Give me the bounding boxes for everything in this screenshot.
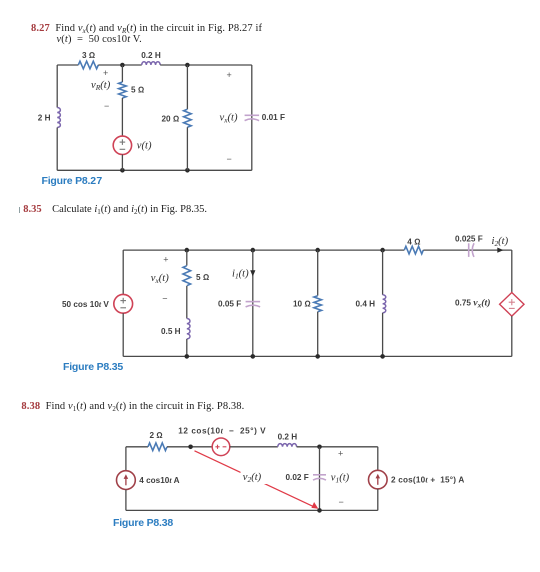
wire: circuit3 top after source (230, 446, 278, 448)
wire: mid branch above 5ohm (121, 65, 123, 82)
wire: circuit2 right edge upper (511, 250, 513, 292)
wire: circuit1 top between 3ohm and node (98, 64, 141, 66)
wire: cap branch upper (319, 447, 321, 511)
svg-text:0.2 H: 0.2 H (141, 51, 161, 60)
wire: mid branch below 5ohm (121, 98, 123, 136)
svg-text:10 Ω: 10 Ω (293, 300, 311, 309)
wire: circuit1 top-left segment (57, 64, 78, 66)
inductor 0.2 H c3 (278, 444, 297, 447)
resistor 4 ohm (404, 246, 423, 254)
svg-text:2 Ω: 2 Ω (149, 431, 162, 440)
node dot top cap branch (317, 445, 322, 450)
node dot bottom branch i1 (251, 354, 256, 359)
wire: circuit3 bottom edge (126, 509, 378, 511)
wire: circuit3 right edge lower (377, 489, 379, 511)
current source 4cos10t (117, 471, 136, 490)
wire: branch vx between (186, 286, 188, 319)
svg-text:0.2 H: 0.2 H (278, 433, 298, 442)
wire: circuit3 top right segment (297, 446, 378, 448)
node dot bottom branch vx (185, 354, 190, 359)
svg-text:12 cos(10t − 25°) V: 12 cos(10t − 25°) V (178, 426, 266, 435)
wire: branch vx above 5ohm (186, 250, 188, 266)
node dot top right-branch c1 (185, 63, 190, 68)
label gap backing v2 (241, 470, 269, 485)
caption Figure P8.27 (42, 175, 103, 187)
inductor 2 H (57, 108, 60, 128)
svg-text:0.01 F: 0.01 F (262, 113, 285, 122)
resistor 5 ohm (119, 82, 127, 98)
resistor R 3ohm (78, 61, 98, 69)
dependent source 0.75vx diamond (500, 293, 524, 317)
svg-text:20 Ω: 20 Ω (162, 114, 180, 123)
svg-text:2 cos(10t + 15°) A: 2 cos(10t + 15°) A (391, 476, 464, 485)
node dot top branch vx (185, 248, 190, 253)
svg-text:0.4 H: 0.4 H (356, 300, 376, 309)
node dot after 2ohm (188, 445, 193, 450)
wire: 20ohm branch upper (186, 65, 188, 109)
node dot bottom branch 10ohm (315, 354, 320, 359)
node dot bottom right-branch c1 (185, 168, 190, 173)
svg-text:50 cos 10t V: 50 cos 10t V (62, 300, 109, 309)
wire: circuit2 left edge lower (122, 313, 124, 356)
node dot top branch 10ohm (315, 248, 320, 253)
wire: circuit2 top after 4ohm (423, 249, 512, 251)
svg-text:5 Ω: 5 Ω (131, 86, 144, 95)
svg-text:i1(t): i1(t) (232, 269, 249, 281)
svg-text:+: + (103, 68, 108, 78)
node dot top branch i1 (251, 248, 256, 253)
svg-text:4 Ω: 4 Ω (407, 238, 420, 247)
svg-text:i2(t): i2(t) (492, 236, 509, 248)
svg-text:4 cos10t A: 4 cos10t A (139, 476, 179, 485)
change bar 8.35 (19, 207, 20, 213)
wire: circuit1 left edge lower (56, 128, 58, 171)
wire: branch 10ohm upper (317, 250, 319, 296)
svg-text:−: − (339, 497, 344, 507)
capacitor 0.05 F (246, 302, 261, 307)
caption Figure P8.35 (63, 361, 123, 373)
resistor 5 ohm c2 (183, 266, 191, 286)
wire: circuit3 right edge upper (377, 447, 379, 471)
wire: 20ohm branch lower (186, 127, 188, 170)
problem 8.38 statement (21, 401, 244, 412)
svg-text:+: + (163, 255, 168, 265)
caption Figure P8.38 (113, 517, 173, 529)
wire: circuit2 left edge upper (122, 250, 124, 294)
svg-text:0.02 F: 0.02 F (286, 473, 309, 482)
svg-text:0.75 vx(t): 0.75 vx(t) (455, 297, 491, 309)
resistor 10 ohm (314, 296, 322, 312)
wire: branch vx below coil (186, 339, 188, 357)
wire: circuit1 left edge upper (56, 65, 58, 108)
wire: circuit1 right edge upper (251, 65, 253, 170)
wire: circuit1 top right of coil (160, 64, 252, 66)
wire: circuit3 left edge upper (125, 447, 127, 471)
wire: circuit2 right edge lower (511, 316, 513, 356)
resistor 2 ohm (148, 443, 167, 451)
svg-text:vR(t): vR(t) (91, 80, 111, 92)
wire: branch 0.4H lower (382, 313, 384, 357)
svg-text:v2(t): v2(t) (243, 472, 262, 484)
svg-text:2 H: 2 H (38, 114, 51, 123)
wire: branch 0.05F upper (252, 250, 254, 356)
node dot bottom branch 0.4H (380, 354, 385, 359)
node dot bottom cap branch (317, 508, 322, 513)
wire: branch 10ohm lower (317, 312, 319, 357)
voltage source 50cos10t (114, 294, 133, 313)
svg-text:+: + (227, 70, 232, 80)
svg-text:5 Ω: 5 Ω (196, 273, 209, 282)
capacitor 0.02 F (313, 475, 326, 480)
svg-text:0.5 H: 0.5 H (161, 327, 181, 336)
wire: branch 0.4H upper (382, 250, 384, 295)
node dot bottom mid c1 (120, 168, 125, 173)
wire: circuit3 top-left segment (126, 446, 148, 448)
problem 8.35 statement (23, 204, 207, 215)
svg-text:+: + (338, 448, 343, 458)
svg-text:vx(t): vx(t) (151, 273, 169, 285)
problem 8.27 statement (31, 23, 262, 34)
inductor 0.2 H (142, 62, 160, 65)
svg-text:3 Ω: 3 Ω (82, 51, 95, 60)
svg-text:v1(t): v1(t) (331, 473, 350, 485)
capacitor 0.025 F (469, 243, 474, 257)
svg-text:v(t): v(t) (137, 141, 152, 152)
capacitor 0.01 F (245, 115, 260, 120)
node dot top branch 0.4H (380, 248, 385, 253)
node dot top mid c1 (120, 63, 125, 68)
wire: circuit2 bottom edge (123, 355, 512, 357)
svg-text:−: − (104, 101, 109, 111)
wire: circuit3 top to node (167, 446, 212, 448)
voltage source 12cos (212, 438, 230, 456)
voltage source v(t) (113, 136, 131, 154)
resistor 20 ohm (184, 109, 192, 127)
wire: circuit1 bottom edge (57, 169, 252, 171)
svg-text:vx(t): vx(t) (220, 113, 238, 125)
arrowhead i1 (250, 270, 255, 276)
arrowhead i2 (497, 248, 503, 253)
red arrow v2 (195, 451, 315, 507)
inductor 0.5 H (187, 319, 190, 339)
svg-text:0.05 F: 0.05 F (218, 299, 241, 308)
svg-text:−: − (162, 294, 167, 304)
svg-text:−: − (227, 154, 232, 164)
wire: circuit2 top edge (123, 249, 404, 251)
wire: mid branch below source (121, 155, 123, 171)
inductor 0.4 H (383, 295, 386, 313)
wire: circuit3 left edge lower (125, 490, 127, 511)
svg-text:0.025 F: 0.025 F (455, 234, 483, 243)
current source 2cos (369, 470, 388, 489)
